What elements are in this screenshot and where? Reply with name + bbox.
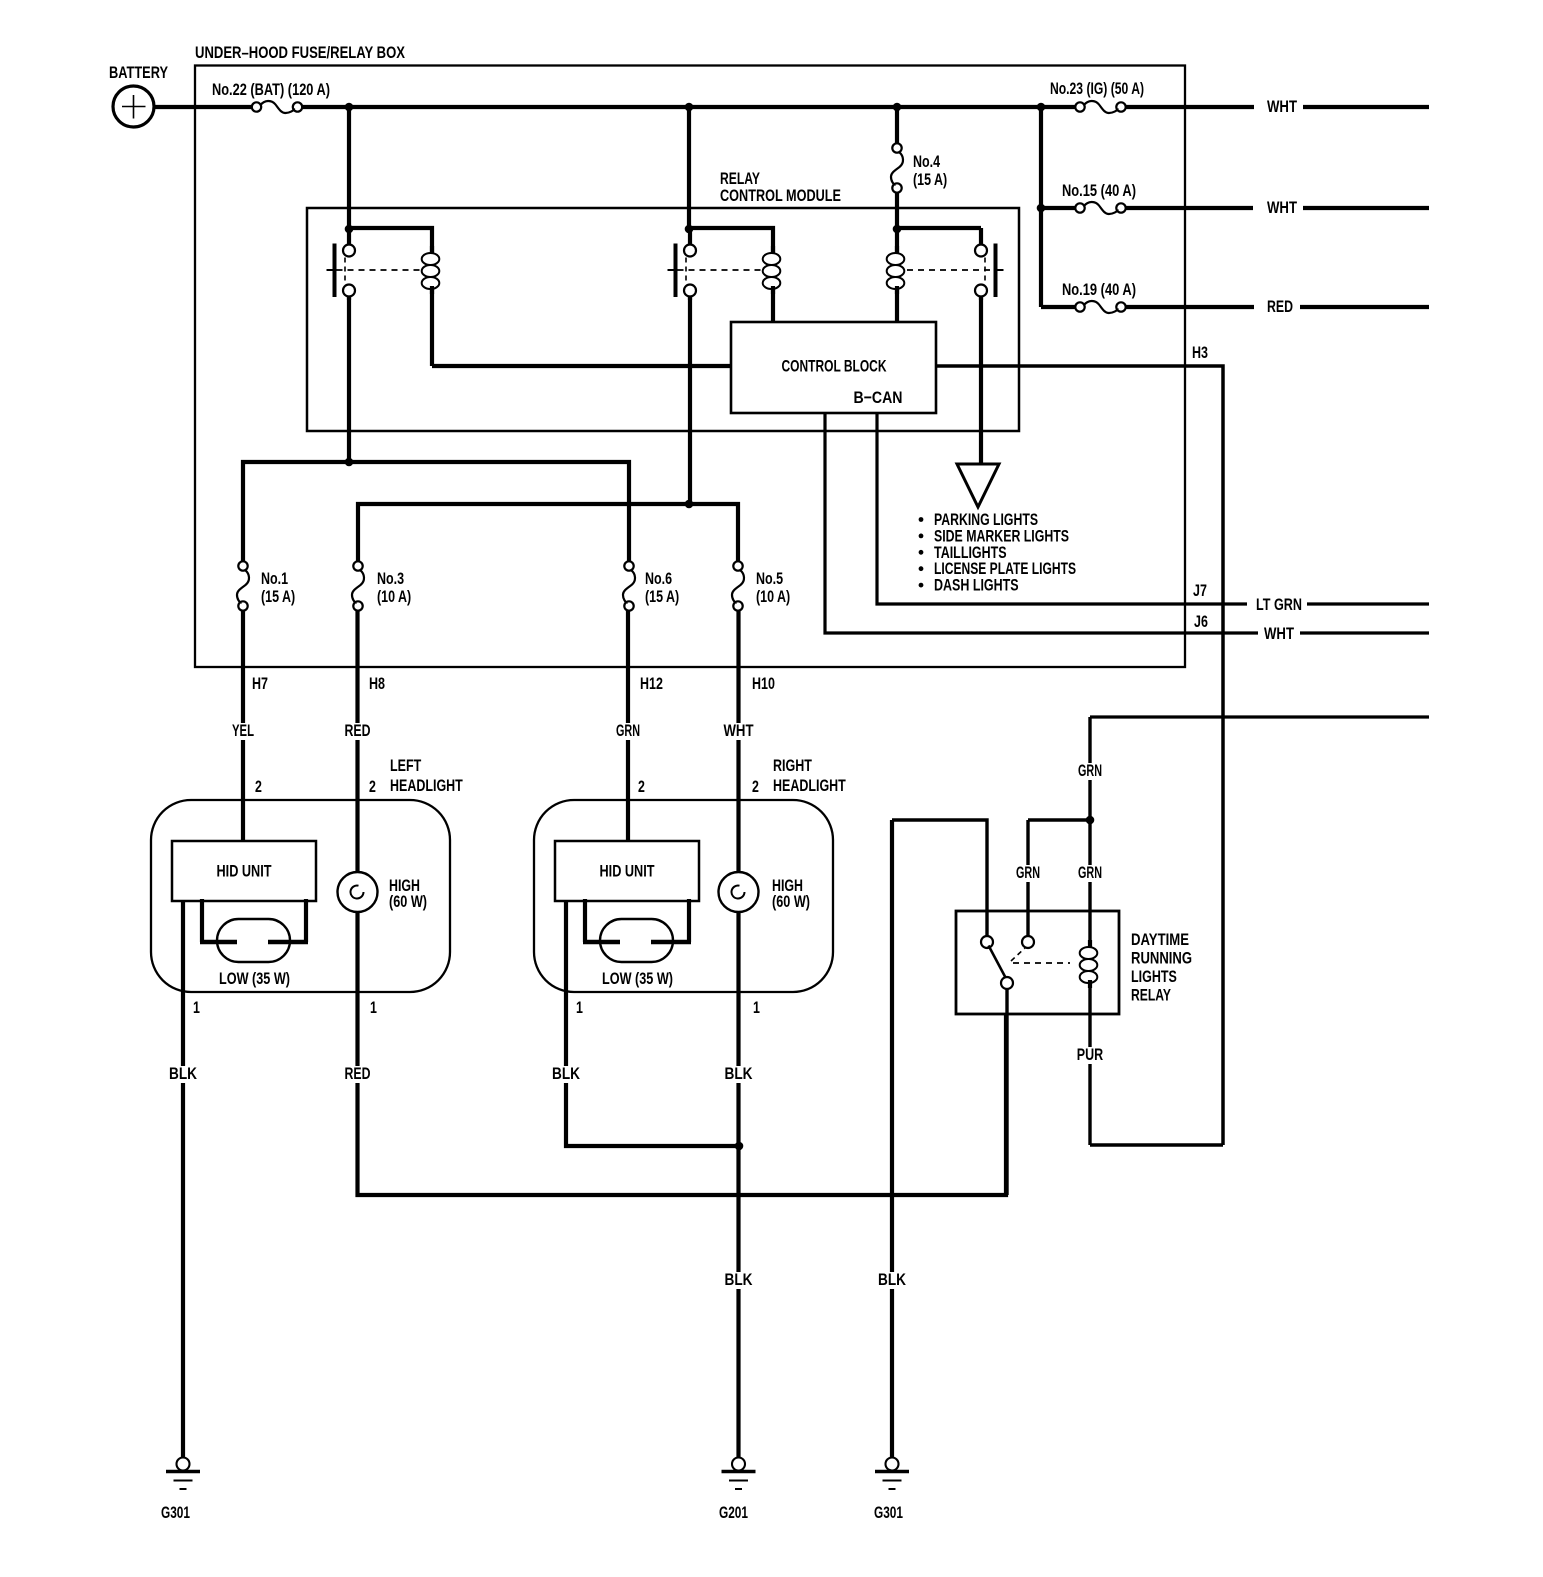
svg-text:H3: H3 [1192,343,1208,362]
svg-text:2: 2 [255,777,262,796]
svg-text:LT GRN: LT GRN [1256,595,1302,614]
svg-text:H10: H10 [752,674,775,693]
svg-text:PUR: PUR [1077,1045,1103,1064]
svg-text:HEADLIGHT: HEADLIGHT [390,776,463,795]
svg-text:LEFT: LEFT [390,756,422,775]
svg-text:2: 2 [369,777,376,796]
svg-text:G301: G301 [161,1503,190,1522]
svg-text:1: 1 [193,998,200,1017]
svg-text:WHT: WHT [1267,97,1297,116]
svg-text:No.1: No.1 [261,569,288,588]
svg-text:J7: J7 [1193,581,1207,600]
svg-text:2: 2 [752,777,759,796]
svg-text:GRN: GRN [1078,761,1102,780]
svg-text:GRN: GRN [1016,863,1040,882]
svg-text:1: 1 [753,998,760,1017]
svg-text:GRN: GRN [1078,863,1102,882]
svg-text:No.5: No.5 [756,569,783,588]
svg-text:LOW (35 W): LOW (35 W) [602,969,673,988]
svg-text:BLK: BLK [552,1064,581,1083]
svg-text:BLK: BLK [725,1064,754,1083]
svg-text:No.3: No.3 [377,569,404,588]
svg-text:LOW (35 W): LOW (35 W) [219,969,290,988]
svg-text:CONTROL BLOCK: CONTROL BLOCK [782,357,888,376]
svg-text:H8: H8 [369,674,385,693]
svg-text:(15 A): (15 A) [645,587,679,606]
svg-text:HID UNIT: HID UNIT [600,862,655,881]
svg-text:BLK: BLK [725,1270,754,1289]
svg-text:(60 W): (60 W) [389,892,427,911]
svg-text:HEADLIGHT: HEADLIGHT [773,776,846,795]
svg-text:No.22 (BAT) (120 A): No.22 (BAT) (120 A) [212,80,330,99]
svg-text:YEL: YEL [232,721,254,740]
svg-text:RIGHT: RIGHT [773,756,812,775]
svg-text:RED: RED [345,1064,371,1083]
svg-text:LIGHTS: LIGHTS [1131,967,1177,986]
svg-text:(10 A): (10 A) [756,587,790,606]
svg-text:No.4: No.4 [913,152,940,171]
svg-text:RELAY: RELAY [1131,986,1171,1005]
svg-text:B−CAN: B−CAN [854,388,903,407]
svg-text:DASH LIGHTS: DASH LIGHTS [934,576,1019,595]
svg-text:BLK: BLK [169,1064,198,1083]
svg-text:(15 A): (15 A) [913,170,947,189]
svg-text:BATTERY: BATTERY [109,63,168,82]
svg-text:No.6: No.6 [645,569,672,588]
svg-text:RED: RED [345,721,371,740]
svg-text:CONTROL MODULE: CONTROL MODULE [720,186,841,205]
svg-text:2: 2 [638,777,645,796]
svg-text:DAYTIME: DAYTIME [1131,930,1189,949]
svg-text:G201: G201 [719,1503,748,1522]
svg-text:No.15 (40 A): No.15 (40 A) [1062,181,1136,200]
svg-text:J6: J6 [1194,612,1208,631]
svg-text:RUNNING: RUNNING [1131,949,1192,968]
svg-text:GRN: GRN [616,721,640,740]
svg-text:No.19 (40 A): No.19 (40 A) [1062,280,1136,299]
svg-text:1: 1 [370,998,377,1017]
svg-text:UNDER–HOOD FUSE/RELAY BOX: UNDER–HOOD FUSE/RELAY BOX [195,43,406,62]
svg-text:(15 A): (15 A) [261,587,295,606]
svg-text:BLK: BLK [878,1270,907,1289]
svg-text:HID UNIT: HID UNIT [217,862,272,881]
svg-text:WHT: WHT [1267,198,1297,217]
svg-text:H12: H12 [640,674,663,693]
svg-text:(60 W): (60 W) [772,892,810,911]
svg-text:WHT: WHT [724,721,754,740]
svg-text:H7: H7 [252,674,268,693]
svg-text:(10 A): (10 A) [377,587,411,606]
svg-text:1: 1 [576,998,583,1017]
svg-text:No.23 (IG) (50 A): No.23 (IG) (50 A) [1050,79,1144,98]
svg-text:RED: RED [1267,297,1293,316]
svg-text:WHT: WHT [1264,624,1294,643]
svg-text:G301: G301 [874,1503,903,1522]
